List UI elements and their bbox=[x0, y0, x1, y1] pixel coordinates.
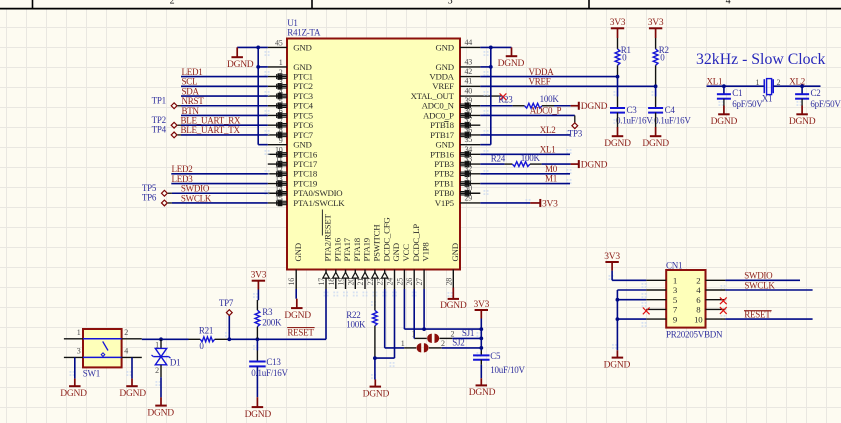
svg-text:BLE_UART_TX: BLE_UART_TX bbox=[181, 125, 241, 135]
wire net VDDA bbox=[480, 76, 617, 78]
svg-text:PTB2: PTB2 bbox=[434, 169, 454, 179]
svg-text:28: 28 bbox=[444, 278, 453, 286]
power ground DGND at R24 bbox=[571, 160, 608, 170]
U1 pin 26 DCDC_LP (bottom) bbox=[405, 224, 421, 289]
test point TP3 bbox=[568, 123, 583, 139]
U1 pin 43 GND (right) bbox=[435, 57, 480, 72]
CN1 pin numbers 5 6 bbox=[673, 295, 701, 305]
svg-text:32kHz - Slow Clock: 32kHz - Slow Clock bbox=[696, 51, 826, 68]
svg-text:DGND: DGND bbox=[581, 160, 608, 170]
svg-text:DGND: DGND bbox=[245, 410, 272, 420]
svg-text:5: 5 bbox=[279, 97, 283, 106]
switch SW1 body bbox=[83, 329, 122, 379]
svg-text:R23: R23 bbox=[498, 95, 513, 105]
U1 designator bbox=[287, 18, 298, 28]
svg-text:PTA17: PTA17 bbox=[342, 237, 352, 261]
svg-text:15: 15 bbox=[275, 194, 283, 203]
U1 pin 42 VDDA (right) bbox=[429, 67, 480, 82]
junction SJ1 node bbox=[479, 337, 483, 341]
svg-text:43: 43 bbox=[465, 57, 473, 66]
wire net SWDIO (CN1 pin2) bbox=[725, 279, 800, 281]
svg-text:TP7: TP7 bbox=[219, 298, 234, 308]
capacitor C2 6pF/50V bbox=[795, 86, 841, 109]
svg-text:TP5: TP5 bbox=[142, 183, 157, 193]
wire net RESET (CN1 pin10) bbox=[725, 318, 812, 320]
svg-text:PTA16: PTA16 bbox=[332, 237, 342, 261]
U1 pin 17 PTA2/RESET (bottom) bbox=[317, 210, 333, 290]
svg-text:3: 3 bbox=[279, 78, 283, 87]
wire SW1 pin2 to R21 bbox=[142, 338, 189, 340]
wire pin28 to ground (dark red) bbox=[452, 288, 454, 299]
svg-text:3: 3 bbox=[448, 0, 453, 6]
capacitor C5 10uF/10V bbox=[473, 348, 525, 375]
junction R3 C13 RESET bbox=[256, 337, 260, 341]
CN1 pin stub row 1 right bbox=[706, 279, 726, 281]
junction TP7 bbox=[227, 337, 231, 341]
net label SWCLK bbox=[181, 193, 212, 203]
U1 pin 22 PSWITCH (bottom) bbox=[366, 224, 382, 289]
net label ADC0_P bbox=[530, 106, 562, 116]
power ground DGND under C3 bbox=[604, 113, 631, 149]
svg-text:2: 2 bbox=[170, 0, 175, 6]
svg-text:ADC0_P: ADC0_P bbox=[423, 110, 454, 120]
svg-text:2: 2 bbox=[279, 68, 283, 77]
svg-text:LED1: LED1 bbox=[182, 67, 203, 77]
svg-text:CN1: CN1 bbox=[666, 260, 682, 270]
wire net BLE_UART_TX bbox=[181, 134, 268, 136]
net label RESET (CN1, overline) bbox=[744, 309, 772, 319]
svg-text:18: 18 bbox=[327, 278, 336, 286]
svg-text:33: 33 bbox=[465, 154, 473, 163]
wire CN1 pin3 to ground rail bbox=[617, 290, 646, 350]
svg-text:C5: C5 bbox=[490, 351, 501, 361]
net label LED3 bbox=[172, 174, 194, 184]
test point TP2 bbox=[152, 115, 181, 128]
svg-text:PTC1: PTC1 bbox=[293, 72, 313, 82]
net label SWDIO (CN1) bbox=[744, 270, 773, 280]
svg-text:BTN: BTN bbox=[182, 106, 200, 116]
svg-text:VREF: VREF bbox=[529, 77, 551, 87]
svg-text:C2: C2 bbox=[811, 88, 821, 98]
U1 pin 31 PTB1 (right) bbox=[434, 174, 480, 189]
power 3V3 above R3 bbox=[251, 271, 267, 290]
svg-text:LED3: LED3 bbox=[172, 174, 194, 184]
U1 pin 33 PTB3 (right) bbox=[434, 154, 480, 169]
test point TP1 bbox=[152, 95, 181, 108]
no-connect X on CN1 pin6 bbox=[720, 297, 727, 304]
svg-text:7: 7 bbox=[279, 116, 283, 125]
svg-text:10: 10 bbox=[694, 314, 703, 324]
U1 pin 34 PTB16 (right) bbox=[430, 145, 480, 160]
wire pin16 to ground bbox=[295, 289, 297, 299]
svg-text:ADC0_P: ADC0_P bbox=[530, 106, 562, 116]
svg-text:35: 35 bbox=[465, 135, 473, 144]
wire net RESET to pin 17 bbox=[257, 289, 326, 339]
svg-text:XTAL_OUT: XTAL_OUT bbox=[411, 91, 455, 101]
svg-text:22: 22 bbox=[366, 278, 375, 286]
U1 pin 7 PTC6 (left) bbox=[268, 116, 314, 130]
svg-text:3V3: 3V3 bbox=[251, 271, 267, 281]
U1 pin 27 V1P8 (bottom) bbox=[415, 242, 431, 289]
svg-text:DGND: DGND bbox=[469, 388, 496, 398]
U1 pin 13 PTC19 (left) bbox=[268, 175, 318, 189]
svg-text:2: 2 bbox=[124, 328, 128, 337]
CN1 pin numbers 1 2 bbox=[673, 276, 700, 286]
svg-text:2: 2 bbox=[696, 276, 700, 286]
svg-text:DGND: DGND bbox=[604, 360, 631, 370]
wire pin26 DCDC_LP elbow to SJ1 bbox=[413, 289, 416, 338]
U1 pin 39 ADC0_N (right) bbox=[422, 96, 481, 111]
svg-text:TP6: TP6 bbox=[142, 193, 157, 203]
svg-text:SWCLK: SWCLK bbox=[744, 280, 775, 290]
wire net LED2 bbox=[171, 173, 267, 175]
svg-text:VDDA: VDDA bbox=[529, 67, 555, 77]
power ground DGND under CN1 bbox=[604, 350, 631, 370]
svg-text:C4: C4 bbox=[665, 105, 676, 115]
test point TP6 bbox=[142, 193, 172, 206]
svg-text:30: 30 bbox=[465, 184, 473, 193]
resistor R1 0 bbox=[615, 38, 631, 77]
U1 pin 3 PTC2 (left) bbox=[268, 78, 313, 92]
svg-text:0: 0 bbox=[660, 52, 665, 62]
net label BTN bbox=[182, 106, 200, 116]
svg-text:DGND: DGND bbox=[711, 117, 738, 127]
svg-text:13: 13 bbox=[275, 175, 283, 184]
wire net NRST bbox=[181, 105, 268, 107]
svg-text:GND: GND bbox=[293, 140, 311, 150]
svg-text:38: 38 bbox=[465, 106, 473, 115]
net label LED1 bbox=[182, 67, 203, 77]
svg-text:SCL: SCL bbox=[182, 77, 198, 87]
svg-text:PR20205VBDN: PR20205VBDN bbox=[666, 330, 723, 340]
svg-text:PTC16: PTC16 bbox=[293, 149, 318, 159]
svg-text:DGND: DGND bbox=[642, 139, 669, 149]
wire net ADC0_P with TP3 bbox=[480, 115, 575, 122]
svg-text:0: 0 bbox=[622, 52, 627, 62]
wire pin25 VCC elbow to node bbox=[404, 289, 481, 329]
svg-text:GND: GND bbox=[435, 140, 453, 150]
junction R2/C4 bbox=[654, 84, 658, 88]
svg-text:RESET: RESET bbox=[287, 328, 314, 338]
svg-text:4: 4 bbox=[279, 87, 283, 96]
net label NRST bbox=[182, 96, 205, 106]
svg-text:PTB18: PTB18 bbox=[430, 120, 455, 130]
svg-text:1: 1 bbox=[411, 329, 415, 338]
wire net VREF bbox=[480, 85, 655, 87]
capacitor C4 0.1uF/16V bbox=[648, 105, 691, 125]
svg-text:8: 8 bbox=[279, 126, 283, 135]
junction at pin45 wire bbox=[256, 46, 260, 50]
svg-text:DGND: DGND bbox=[60, 389, 87, 399]
svg-text:42: 42 bbox=[465, 67, 473, 76]
net label M1 bbox=[545, 174, 557, 184]
svg-text:SWDIO: SWDIO bbox=[181, 184, 210, 194]
U1 pin 8 PTC7 (left) bbox=[268, 126, 314, 140]
wire C5 to ground bbox=[480, 360, 482, 379]
svg-text:GND: GND bbox=[293, 243, 303, 261]
power ground DGND under SW1 pin4 bbox=[119, 379, 146, 399]
svg-text:SWCLK: SWCLK bbox=[181, 193, 212, 203]
svg-text:PTA18: PTA18 bbox=[352, 237, 362, 261]
power 3V3 above C5 node bbox=[473, 300, 489, 319]
svg-text:24: 24 bbox=[386, 278, 395, 286]
svg-text:1: 1 bbox=[77, 328, 81, 337]
power ground DGND under C2 bbox=[789, 99, 816, 127]
svg-text:PTC4: PTC4 bbox=[293, 101, 313, 111]
net label XL1 (pin34) bbox=[540, 145, 556, 155]
CN1 pin stub row 2 right bbox=[706, 289, 726, 291]
svg-text:32: 32 bbox=[465, 164, 473, 173]
svg-text:SDA: SDA bbox=[182, 86, 200, 96]
svg-text:6: 6 bbox=[279, 107, 283, 116]
U1 pin 10 PTC16 (left) bbox=[268, 146, 318, 160]
svg-text:XL2: XL2 bbox=[540, 125, 556, 135]
svg-text:200K: 200K bbox=[262, 317, 282, 327]
U1 pin 1 GND (left) bbox=[268, 58, 312, 72]
capacitor C1 6pF/50V bbox=[717, 86, 763, 109]
no-connect X on CN1 pin8 bbox=[720, 307, 727, 314]
wire TP7 junction to R3/C13 junction bbox=[229, 338, 257, 340]
U1 pin 9 GND (left) bbox=[268, 136, 312, 150]
power ground DGND at R23 bbox=[571, 102, 608, 112]
U1 pin 36 PTB17 (right) bbox=[430, 125, 480, 140]
junction D1 top bbox=[159, 337, 163, 341]
svg-text:GND: GND bbox=[450, 243, 460, 261]
wire net SWDIO bbox=[172, 192, 268, 194]
U1 pin 19 PTA17 (bottom) bbox=[337, 237, 353, 289]
svg-text:3V3: 3V3 bbox=[604, 252, 620, 262]
svg-text:C1: C1 bbox=[732, 88, 742, 98]
U1 pin 2 PTC1 (left) bbox=[268, 68, 313, 82]
resistor R2 0 bbox=[653, 38, 669, 86]
CN1 value PR20205VBDN bbox=[666, 330, 723, 340]
U1 pin 35 GND (right) bbox=[435, 135, 480, 150]
wire net LED3 bbox=[171, 183, 267, 185]
net label SCL bbox=[182, 77, 198, 87]
U1 pin 5 PTC4 (left) bbox=[268, 97, 314, 111]
power 3V3 at pin 29 V1P5 bbox=[480, 199, 558, 209]
wire net M0 bbox=[480, 173, 570, 175]
svg-text:XL1: XL1 bbox=[540, 145, 556, 155]
svg-text:39: 39 bbox=[465, 96, 473, 105]
CN1 pin numbers 7 8 bbox=[673, 305, 701, 315]
net label BLE_UART_TX bbox=[181, 125, 241, 135]
svg-text:X1: X1 bbox=[762, 94, 773, 104]
U1 pin 24 GND (bottom) bbox=[386, 243, 402, 289]
net label SWCLK (CN1) bbox=[744, 280, 775, 290]
svg-text:DGND: DGND bbox=[440, 301, 467, 311]
svg-text:VDDA: VDDA bbox=[429, 72, 454, 82]
svg-text:37: 37 bbox=[465, 116, 473, 125]
svg-text:100K: 100K bbox=[346, 319, 366, 329]
wire net BLE_UART_RX bbox=[181, 124, 268, 126]
svg-text:C3: C3 bbox=[627, 105, 638, 115]
wire net SCL bbox=[181, 85, 268, 87]
test point TP7 bbox=[219, 298, 234, 339]
svg-text:M0: M0 bbox=[545, 164, 558, 174]
svg-text:PTB0: PTB0 bbox=[434, 188, 454, 198]
power ground DGND under R22 bbox=[363, 380, 390, 400]
svg-text:TP4: TP4 bbox=[152, 125, 167, 135]
SW1 pin 3 bbox=[64, 347, 83, 358]
svg-text:1: 1 bbox=[756, 78, 760, 87]
wire SJ1 to node bbox=[452, 337, 481, 339]
svg-text:1: 1 bbox=[401, 339, 405, 348]
CN1 pin stub row 4 right bbox=[706, 308, 726, 310]
wire C4 stem bbox=[655, 86, 657, 107]
svg-text:3V3: 3V3 bbox=[473, 300, 489, 310]
wire R22 to ground bbox=[374, 358, 376, 379]
CN1 pin stub row 1 left bbox=[646, 279, 666, 281]
power ground DGND under C1 bbox=[711, 99, 738, 127]
svg-text:PSWITCH: PSWITCH bbox=[372, 224, 382, 262]
net label RESET (overline) bbox=[287, 328, 314, 338]
capacitor C3 0.1uF/16V bbox=[610, 105, 653, 125]
svg-text:DGND: DGND bbox=[604, 139, 631, 149]
power ground DGND under C13 bbox=[245, 397, 272, 420]
junction node row 329 bbox=[479, 327, 483, 331]
U1 pin 30 PTB0 (right) bbox=[434, 184, 480, 199]
svg-text:20: 20 bbox=[346, 278, 355, 286]
U1 pin 37 PTB18 (right) bbox=[430, 116, 480, 131]
U1 pin 40 XTAL_OUT (right) bbox=[411, 86, 502, 101]
svg-text:17: 17 bbox=[317, 278, 326, 286]
power 3V3 above R1 bbox=[610, 18, 626, 38]
U1 pin 15 PTA1/SWCLK (left) bbox=[268, 194, 345, 208]
svg-text:GND: GND bbox=[435, 62, 453, 72]
SW1 pin 4 bbox=[122, 347, 142, 358]
svg-text:DCDC_CFG: DCDC_CFG bbox=[381, 217, 391, 262]
svg-text:DGND: DGND bbox=[363, 389, 390, 399]
svg-text:1: 1 bbox=[673, 276, 677, 286]
svg-text:2: 2 bbox=[155, 366, 159, 375]
test point TP4 bbox=[152, 125, 181, 138]
power ground DGND under C4 bbox=[642, 113, 669, 149]
svg-text:BLE_UART_RX: BLE_UART_RX bbox=[181, 116, 241, 126]
CN1 pin stub row 3 left bbox=[646, 299, 666, 301]
svg-text:PTA1/SWCLK: PTA1/SWCLK bbox=[293, 198, 345, 208]
test point TP5 bbox=[142, 183, 172, 196]
sheet border with column labels 2 3 4 bbox=[0, 0, 841, 9]
svg-text:12: 12 bbox=[275, 165, 283, 174]
CN1 pin stub row 5 right bbox=[706, 318, 726, 320]
resistor R3 200K bbox=[255, 300, 282, 339]
svg-text:SJ2: SJ2 bbox=[452, 338, 464, 348]
U1 pin 29 V1P5 (right) bbox=[435, 193, 481, 208]
power ground DGND top-left bbox=[227, 47, 254, 70]
svg-text:LED2: LED2 bbox=[172, 164, 193, 174]
svg-text:GND: GND bbox=[435, 42, 453, 52]
junction R1/C3 bbox=[616, 75, 620, 79]
wire C3 stem bbox=[617, 77, 619, 108]
svg-text:PTC2: PTC2 bbox=[293, 81, 313, 91]
svg-text:DGND: DGND bbox=[789, 117, 816, 127]
U1 value R41Z-TA bbox=[287, 28, 321, 38]
svg-text:11: 11 bbox=[275, 155, 282, 164]
U1 pin 18 PTA16 (bottom) bbox=[327, 237, 343, 289]
svg-text:PTB3: PTB3 bbox=[434, 159, 454, 169]
SW1 pin 2 bbox=[122, 328, 142, 339]
svg-text:1: 1 bbox=[279, 58, 283, 67]
junction R22 / pin24 GND bbox=[373, 356, 377, 360]
no-connect X on CN1 pin7 bbox=[643, 308, 650, 315]
wire D1 to ground bbox=[160, 377, 162, 397]
wire pin24 GND elbow bbox=[375, 289, 395, 358]
U1 pin 41 VREF (right) bbox=[432, 77, 480, 92]
svg-text:U1: U1 bbox=[287, 18, 298, 28]
U1 pin 38 ADC0_P (right) bbox=[423, 106, 480, 121]
solder jumper SJ1 bbox=[411, 328, 474, 343]
svg-text:NRST: NRST bbox=[182, 96, 205, 106]
wire net XL2 to crystal bbox=[773, 85, 820, 87]
svg-text:29: 29 bbox=[465, 193, 473, 202]
net label M0 bbox=[545, 164, 558, 174]
svg-text:PTC19: PTC19 bbox=[293, 178, 318, 188]
IC U1 R41Z-TA body bbox=[287, 39, 460, 270]
svg-text:R22: R22 bbox=[346, 310, 360, 320]
svg-text:10: 10 bbox=[275, 146, 283, 155]
svg-text:VCC: VCC bbox=[401, 244, 411, 262]
wire GND net pins 44 43 35 bbox=[480, 47, 511, 144]
svg-text:DGND: DGND bbox=[227, 60, 254, 70]
svg-text:PTB16: PTB16 bbox=[430, 149, 455, 159]
wire net SWCLK (CN1 pin4) bbox=[725, 289, 812, 291]
svg-text:DGND: DGND bbox=[147, 408, 174, 418]
junction pin27 V1P8 bbox=[422, 289, 426, 331]
svg-text:PTA2/RESET: PTA2/RESET bbox=[323, 213, 333, 261]
svg-text:0.1uF/16V: 0.1uF/16V bbox=[654, 115, 691, 125]
wire SJ2 to node bbox=[442, 347, 482, 349]
svg-text:PTC18: PTC18 bbox=[293, 169, 318, 179]
wire C13 to ground bbox=[256, 366, 258, 397]
junction CN1 pin9 bbox=[616, 317, 620, 321]
section title 32kHz - Slow Clock bbox=[696, 51, 826, 68]
svg-text:3V3: 3V3 bbox=[610, 18, 626, 28]
power ground DGND under SW1 pin3 bbox=[60, 379, 87, 399]
svg-text:ADC0_N: ADC0_N bbox=[422, 101, 455, 111]
U1 pin 16 GND (bottom) bbox=[287, 243, 303, 289]
svg-text:100K: 100K bbox=[521, 153, 541, 163]
net label LED2 bbox=[172, 164, 193, 174]
svg-text:M1: M1 bbox=[545, 174, 557, 184]
svg-text:41: 41 bbox=[465, 77, 473, 86]
svg-text:25: 25 bbox=[395, 278, 404, 286]
svg-text:TP3: TP3 bbox=[568, 129, 583, 139]
CN1 pin stub row 3 right bbox=[706, 299, 726, 301]
resistor R24 100K on PTB3 bbox=[480, 153, 570, 166]
U1 pin 11 PTC17 (left) bbox=[268, 155, 318, 169]
svg-text:10uF/10V: 10uF/10V bbox=[490, 365, 525, 375]
svg-text:R3: R3 bbox=[262, 307, 273, 317]
svg-text:4: 4 bbox=[726, 0, 731, 6]
diode D1 TVS bbox=[152, 339, 181, 377]
svg-text:3V3: 3V3 bbox=[542, 199, 558, 209]
net label VREF bbox=[529, 77, 551, 87]
wire 3V3 to CN1 pin1 bbox=[612, 271, 646, 281]
svg-text:DCDC_LP: DCDC_LP bbox=[411, 224, 421, 262]
svg-text:14: 14 bbox=[275, 184, 283, 193]
svg-text:23: 23 bbox=[376, 278, 385, 286]
svg-text:SW1: SW1 bbox=[83, 369, 100, 379]
wire net LED1 bbox=[181, 76, 268, 78]
U1 pin 6 PTC5 (left) bbox=[268, 107, 314, 121]
grid dots bbox=[70, 51, 802, 386]
svg-text:TP1: TP1 bbox=[152, 95, 166, 105]
svg-text:45: 45 bbox=[275, 39, 283, 48]
svg-text:3: 3 bbox=[77, 347, 81, 356]
svg-text:V1P5: V1P5 bbox=[435, 198, 455, 208]
svg-text:PTA0/SWDIO: PTA0/SWDIO bbox=[293, 188, 342, 198]
